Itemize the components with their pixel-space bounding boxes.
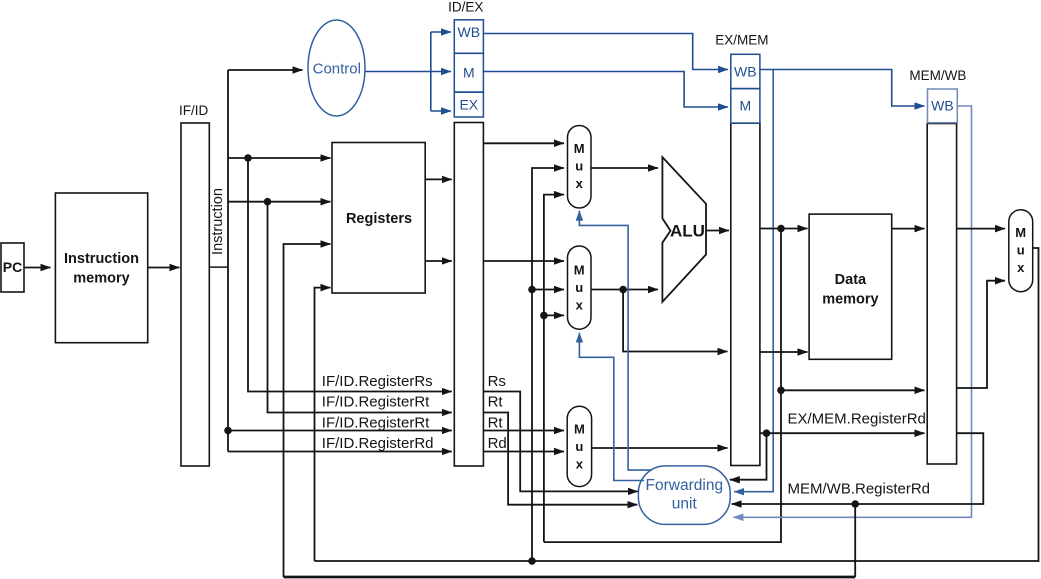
svg-text:Rt: Rt bbox=[488, 394, 504, 411]
registers bbox=[332, 143, 425, 294]
wire write register from MEM/WB.RegisterRd bbox=[284, 244, 331, 577]
instruction bus vertical bbox=[227, 70, 229, 452]
wire EX/MEM WB to MEM/WB WB bbox=[760, 70, 925, 107]
node writeback forward bottom bbox=[528, 557, 536, 565]
wire ALU result forward path bbox=[544, 229, 781, 543]
svg-text:M: M bbox=[739, 98, 751, 114]
pipeline register MEM/WB bbox=[909, 68, 966, 464]
svg-text:x: x bbox=[576, 456, 584, 471]
wire control to ID/EX bbox=[365, 32, 451, 111]
svg-text:Instruction: Instruction bbox=[64, 251, 139, 267]
wire ID/EX M to EX/MEM M bbox=[483, 72, 728, 108]
svg-text:EX/MEM.RegisterRd: EX/MEM.RegisterRd bbox=[788, 411, 926, 428]
wire MEM/WB.RegisterRd to forwarding unit bbox=[732, 433, 984, 504]
wire mux A to ALU bbox=[591, 167, 658, 169]
svg-text:memory: memory bbox=[73, 271, 129, 287]
svg-text:u: u bbox=[575, 280, 583, 295]
svg-text:u: u bbox=[575, 439, 583, 454]
instruction memory bbox=[55, 193, 147, 343]
mux C writeback bbox=[1009, 210, 1033, 292]
svg-text:u: u bbox=[1017, 243, 1025, 258]
forwarding unit bbox=[638, 466, 730, 525]
svg-text:IF/ID.RegisterRt: IF/ID.RegisterRt bbox=[322, 394, 430, 411]
control unit bbox=[308, 20, 365, 116]
svg-text:WB: WB bbox=[734, 64, 757, 80]
svg-text:WB: WB bbox=[931, 98, 954, 114]
EX/MEM WB box bbox=[731, 54, 760, 88]
mux D destination register bbox=[567, 406, 591, 486]
svg-text:Control: Control bbox=[313, 61, 361, 78]
node read register 1 tap bbox=[244, 154, 252, 162]
wire MEM/WB control to forwarding unit bbox=[733, 106, 971, 517]
pipeline register ID/EX bbox=[448, 0, 483, 466]
svg-text:EX/MEM: EX/MEM bbox=[715, 33, 768, 48]
wire ALU result to writeback mux bbox=[957, 281, 1005, 388]
wire ForwardB bbox=[579, 333, 644, 481]
svg-text:Forwarding: Forwarding bbox=[646, 477, 724, 494]
wire IF/ID.RegisterRt bbox=[268, 202, 452, 413]
pipeline register EX/MEM bbox=[715, 33, 768, 466]
svg-text:M: M bbox=[574, 141, 585, 156]
svg-text:unit: unit bbox=[672, 496, 698, 513]
node instruction bus Rt tap bbox=[224, 427, 232, 435]
wire EX/MEM.RegisterRd to forwarding unit bbox=[730, 433, 767, 480]
svg-text:memory: memory bbox=[822, 292, 878, 308]
wire read data 2 to mux B bbox=[483, 260, 564, 262]
mux A bbox=[568, 126, 592, 209]
svg-text:Registers: Registers bbox=[346, 211, 412, 227]
svg-text:MEM/WB.RegisterRd: MEM/WB.RegisterRd bbox=[788, 481, 931, 498]
node read register 2 tap bbox=[264, 198, 272, 206]
wire memory read data to MEM/WB bbox=[892, 228, 925, 230]
svg-text:IF/ID.RegisterRt: IF/ID.RegisterRt bbox=[322, 414, 430, 431]
wire mux B to ALU bbox=[591, 289, 658, 291]
svg-text:IF/ID: IF/ID bbox=[179, 103, 208, 118]
EX/MEM M box bbox=[731, 89, 760, 124]
wire instruction to Control bbox=[228, 69, 303, 71]
svg-text:x: x bbox=[1017, 260, 1025, 275]
wire read register 1 bbox=[228, 157, 331, 159]
node writeback forward to mux B bbox=[528, 286, 536, 294]
wire read data 1 bbox=[425, 178, 452, 180]
data memory bbox=[809, 214, 892, 359]
svg-text:Data: Data bbox=[835, 272, 867, 288]
wire MEM/WB.RegisterRd to write register bbox=[854, 504, 856, 577]
wire EX/MEM forward bbox=[544, 195, 564, 542]
node mux B output tap bbox=[619, 286, 627, 294]
wire read data to writeback mux bbox=[957, 228, 1005, 230]
ID/EX M box bbox=[454, 53, 483, 92]
wire Rd to destination mux bbox=[483, 451, 564, 453]
wire Rt to forwarding unit bbox=[483, 413, 637, 505]
wire destination register mux to EX/MEM bbox=[592, 447, 728, 449]
wire store data to data memory bbox=[760, 351, 808, 353]
svg-text:EX: EX bbox=[459, 97, 478, 113]
Instruction field label box bbox=[209, 188, 228, 267]
wire read data 2 bbox=[425, 260, 452, 262]
pipeline register IF/ID bbox=[179, 103, 209, 466]
MEM/WB WB box bbox=[928, 89, 958, 123]
wire writeback mux output bbox=[315, 248, 1039, 561]
svg-text:x: x bbox=[576, 298, 584, 313]
svg-text:Rt: Rt bbox=[488, 414, 504, 431]
wire PC to Instruction memory bbox=[24, 267, 51, 269]
svg-text:Rd: Rd bbox=[488, 435, 507, 452]
wire ALU result to MEM/WB bbox=[781, 389, 925, 391]
wire ALU result to data memory bbox=[760, 228, 808, 230]
wire IF/ID.RegisterRs bbox=[248, 158, 452, 392]
wire ALU result to EX/MEM bbox=[706, 230, 729, 232]
mux B bbox=[568, 246, 592, 329]
PC register bbox=[1, 243, 24, 292]
wire Rt to destination mux bbox=[483, 430, 564, 432]
ALU bbox=[662, 157, 706, 302]
wire write data from writeback mux bbox=[315, 288, 331, 561]
node EX/MEM forward to mux B bbox=[540, 312, 548, 320]
wire EX/MEM forward to mux B bbox=[544, 314, 564, 316]
node EX/MEM.RegisterRd tap bbox=[763, 429, 771, 437]
svg-text:Rs: Rs bbox=[488, 373, 506, 390]
wire EX/MEM control to forwarding unit bbox=[734, 70, 773, 492]
node ALU result to MEM/WB tap bbox=[777, 387, 785, 395]
wire IF/ID.RegisterRd to mux bbox=[228, 451, 452, 453]
wire read data 1 to ALU mux bbox=[483, 142, 564, 144]
wire store value to EX/MEM bbox=[623, 290, 727, 352]
svg-text:M: M bbox=[1015, 225, 1026, 240]
svg-text:PC: PC bbox=[3, 259, 22, 275]
svg-text:Instruction: Instruction bbox=[210, 188, 226, 255]
wire ForwardA bbox=[579, 211, 652, 470]
node ALU result tap bbox=[777, 225, 785, 233]
wire EX/MEM.RegisterRd to MEM/WB bbox=[760, 432, 925, 434]
wire Rs to forwarding unit bbox=[483, 392, 637, 492]
ID/EX EX box bbox=[454, 92, 483, 117]
wire Instruction memory to IF/ID bbox=[148, 267, 180, 269]
svg-text:MEM/WB: MEM/WB bbox=[909, 68, 966, 83]
svg-text:ID/EX: ID/EX bbox=[448, 0, 483, 15]
wire MEM/WB.RegisterRd bottom run bbox=[284, 576, 856, 579]
svg-text:u: u bbox=[575, 159, 583, 174]
wire ID/EX WB to EX/MEM WB bbox=[483, 34, 728, 70]
svg-text:M: M bbox=[574, 263, 585, 278]
svg-text:M: M bbox=[463, 65, 475, 81]
svg-text:M: M bbox=[574, 421, 585, 436]
svg-text:IF/ID.RegisterRd: IF/ID.RegisterRd bbox=[322, 435, 434, 452]
wire IF/ID.RegisterRt to mux bbox=[228, 430, 452, 432]
node MEM/WB.RegisterRd tap bbox=[851, 500, 859, 508]
wire writeback forward to mux B bbox=[532, 289, 564, 291]
ID/EX WB box bbox=[454, 20, 483, 54]
svg-text:WB: WB bbox=[458, 24, 481, 40]
wire writeback forward bbox=[532, 168, 564, 561]
wire read register 2 bbox=[228, 201, 331, 203]
svg-text:x: x bbox=[576, 176, 584, 191]
svg-text:IF/ID.RegisterRs: IF/ID.RegisterRs bbox=[322, 373, 433, 390]
svg-text:ALU: ALU bbox=[670, 222, 705, 241]
